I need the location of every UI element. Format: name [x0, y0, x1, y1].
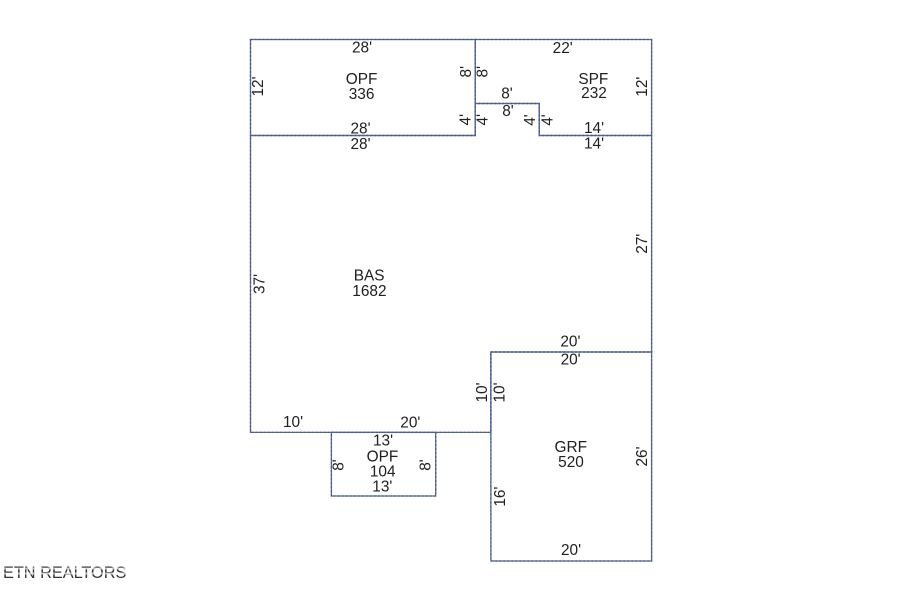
svg-text:12': 12' [250, 76, 267, 96]
svg-text:13': 13' [373, 433, 393, 450]
svg-text:37': 37' [251, 274, 268, 294]
svg-text:22': 22' [553, 40, 573, 57]
room GRF 520 outline [491, 352, 652, 561]
room SPF 232 outline [475, 40, 651, 136]
svg-text:520: 520 [558, 454, 584, 471]
svg-text:16': 16' [492, 487, 509, 507]
svg-text:4': 4' [457, 114, 474, 126]
svg-text:28': 28' [352, 39, 372, 56]
svg-text:8': 8' [417, 459, 434, 471]
room OPF 336 outline [251, 40, 476, 136]
svg-text:232: 232 [581, 85, 607, 102]
svg-text:8': 8' [501, 86, 513, 103]
svg-text:4': 4' [540, 114, 557, 126]
svg-text:26': 26' [634, 446, 651, 466]
svg-text:4': 4' [474, 114, 491, 126]
svg-text:8': 8' [458, 66, 475, 78]
svg-text:8': 8' [330, 459, 347, 471]
svg-text:8': 8' [475, 66, 492, 78]
svg-text:1682: 1682 [352, 283, 386, 300]
svg-text:27': 27' [634, 234, 651, 254]
svg-text:12': 12' [634, 77, 651, 97]
svg-text:10': 10' [474, 382, 491, 402]
svg-text:28': 28' [350, 136, 370, 153]
svg-text:28': 28' [350, 121, 370, 138]
svg-text:10': 10' [492, 382, 509, 402]
svg-text:10': 10' [283, 414, 303, 431]
room BAS 1682 outline [251, 104, 652, 433]
svg-text:20': 20' [560, 334, 580, 351]
svg-text:13': 13' [372, 479, 392, 496]
watermark ETN REALTORS [3, 564, 126, 583]
svg-text:8': 8' [502, 103, 514, 120]
svg-text:BAS: BAS [354, 268, 385, 285]
svg-text:14': 14' [584, 136, 604, 153]
svg-text:14': 14' [584, 120, 604, 137]
svg-text:336: 336 [349, 86, 375, 103]
svg-text:20': 20' [561, 542, 581, 559]
svg-text:20': 20' [561, 352, 581, 369]
svg-text:4': 4' [522, 114, 539, 126]
svg-text:20': 20' [400, 415, 420, 432]
room OPF 104 outline [331, 432, 435, 496]
